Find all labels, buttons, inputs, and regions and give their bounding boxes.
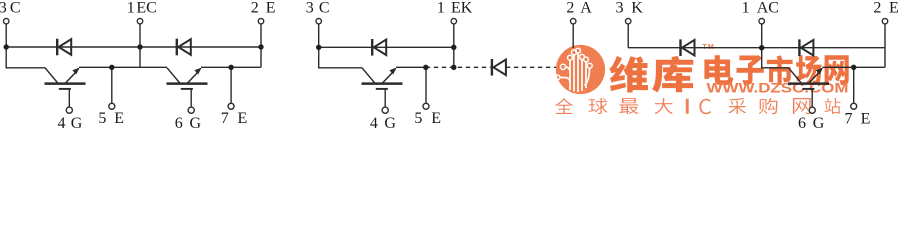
terminal circle 4G mid (gate pin): [382, 107, 388, 113]
wire 3K lead: [627, 24, 629, 48]
wire T2 emitter run: [201, 66, 261, 68]
transistor Q3 (IGBT, BJT-style symbol): [362, 68, 403, 108]
junction 3C-bus: [3, 44, 8, 49]
terminal circle 4G left (gate pin): [66, 107, 72, 113]
junction 1AC-bus: [759, 45, 764, 50]
wire 1AC lead and collector run: [762, 24, 789, 68]
svg-text:E: E: [266, 0, 276, 17]
diode D3 (freewheel of Q3) (cathode bar left, anode right): [372, 39, 386, 56]
wire 1EK lead: [453, 24, 455, 67]
wire left top bus C-to-E: [6, 46, 261, 48]
wire 2A lead over logo: [572, 24, 574, 48]
wire 5E mid drop: [425, 67, 427, 103]
svg-text:3: 3: [306, 0, 314, 17]
transistor Q4 (IGBT, BJT-style symbol): [788, 68, 829, 108]
terminal circle 2 A: [570, 18, 576, 24]
terminal circle 3 C mid: [316, 18, 322, 24]
watermark text wm-char 最: [619, 98, 638, 114]
svg-text:C: C: [10, 0, 21, 17]
svg-text:AC: AC: [757, 0, 779, 17]
wire 7E right drop: [853, 67, 855, 103]
svg-text:1: 1: [127, 0, 135, 17]
watermark text wm-char 网2: [793, 98, 811, 114]
wire 2E right lead: [884, 24, 886, 67]
svg-text:1: 1: [437, 0, 445, 17]
svg-text:7: 7: [845, 110, 853, 127]
label 6 G left: [175, 115, 202, 132]
svg-text:WWW.DZSC.COM: WWW.DZSC.COM: [707, 80, 849, 96]
terminal circle 1 EC: [137, 18, 143, 24]
label 1 AC: [742, 0, 779, 17]
watermark text wm-char 市: [767, 55, 793, 85]
terminal circle 2 E right: [882, 18, 888, 24]
junction 5E-wire mid: [423, 65, 428, 70]
label 2 E left: [251, 0, 276, 17]
svg-text:EK: EK: [451, 0, 473, 17]
watermark text wm-char 网: [825, 55, 849, 85]
terminal circle 5E left pin: [109, 103, 115, 109]
wire T1 emitter to T2 collector: [79, 66, 167, 68]
label 3 C mid: [306, 0, 330, 17]
terminal circle 3 C left: [3, 18, 9, 24]
svg-text:6: 6: [175, 115, 183, 131]
watermark text wm-char 维: [610, 56, 649, 93]
svg-text:2: 2: [873, 0, 881, 17]
watermark text wm-char 采: [729, 98, 747, 114]
svg-text:7: 7: [221, 110, 229, 127]
svg-text:G: G: [813, 115, 825, 131]
transistor Q2 (IGBT, BJT-style symbol): [167, 68, 208, 108]
svg-text:E: E: [861, 110, 871, 127]
junction 3C-bus mid: [316, 45, 321, 50]
wire 1EC lead: [139, 24, 141, 67]
label 7 E left: [221, 110, 248, 127]
terminal circle 7E right pin: [851, 103, 857, 109]
label 4 G mid: [370, 115, 397, 132]
svg-text:1: 1: [742, 0, 750, 17]
watermark text wm-char C: [699, 99, 711, 114]
svg-text:E: E: [889, 0, 899, 17]
junction 7E-wire right: [851, 65, 856, 70]
wire dashed link diode to 2A: [506, 66, 556, 68]
svg-text:K: K: [631, 0, 643, 17]
wire 7E left drop: [230, 67, 232, 103]
wire 5E left drop: [111, 67, 113, 103]
watermark text wm-char 站: [825, 98, 841, 114]
terminal circle 1 AC: [759, 18, 765, 24]
junction 2E-bus: [258, 44, 263, 49]
svg-text:G: G: [384, 115, 396, 131]
junction 5E-wire: [109, 65, 114, 70]
junction 1EK-wire: [451, 65, 456, 70]
svg-text:2: 2: [566, 0, 574, 17]
label 5 E left: [98, 110, 124, 127]
label 1 EC: [127, 0, 157, 17]
terminal circle 6G left (gate pin): [188, 107, 194, 113]
svg-text:A: A: [580, 0, 592, 17]
junction 1EK-bus: [451, 45, 456, 50]
label 2 E right: [873, 0, 898, 17]
diode D1 (freewheel of T1) (cathode bar left, anode right): [57, 39, 71, 56]
svg-text:E: E: [114, 110, 124, 127]
wire mid top bus: [319, 46, 454, 48]
label 6 G right: [798, 115, 825, 132]
wire 3C mid lead and collector run: [319, 24, 363, 68]
transistor Q1 (IGBT, BJT-style symbol): [45, 68, 86, 108]
junction 1EC-bus: [137, 44, 142, 49]
svg-text:EC: EC: [136, 0, 156, 17]
terminal circle 1 EK: [451, 18, 457, 24]
terminal circle 2 E left: [258, 18, 264, 24]
diode D4 (series blocking) (cathode bar left, anode right): [492, 59, 506, 76]
label 4 G left: [58, 115, 83, 132]
svg-text:3: 3: [0, 0, 7, 17]
terminal circle 7E left pin: [228, 103, 234, 109]
diode D5 (series, K to AC) (cathode bar left, anode right): [681, 39, 695, 56]
watermark text wm-char 电: [704, 55, 733, 85]
wire dashed link to series diode: [426, 66, 491, 68]
svg-text:G: G: [190, 115, 202, 131]
terminal circle 6G right (gate pin): [809, 107, 815, 113]
svg-text:2: 2: [251, 0, 259, 17]
terminal circle 3 K: [625, 18, 631, 24]
svg-text:5: 5: [98, 110, 106, 127]
label 7 E right: [845, 110, 871, 127]
svg-text:4: 4: [370, 115, 378, 131]
svg-text:E: E: [431, 110, 441, 127]
wire 2E lead: [260, 24, 262, 67]
diode D6 (freewheel of Q4) (cathode bar left, anode right): [799, 39, 813, 56]
label 2 A: [566, 0, 592, 17]
wire 3C lead and collector run T1: [6, 24, 45, 68]
svg-text:C: C: [319, 0, 330, 17]
watermark text wm-char I: [686, 99, 689, 114]
label 3 K: [616, 0, 644, 17]
terminal circle 5E mid pin: [423, 103, 429, 109]
watermark text wm-char 购: [759, 98, 778, 114]
wire right top bus: [628, 47, 885, 49]
watermark text wm-char 球: [589, 98, 608, 114]
watermark logo circuit traces: [560, 53, 590, 92]
watermark text wm-char 大: [655, 98, 673, 114]
label 1 EK: [437, 0, 473, 17]
watermark text wm-char 子: [737, 55, 764, 85]
svg-text:4: 4: [58, 115, 66, 131]
watermark text wm-char 全: [555, 98, 573, 114]
svg-text:5: 5: [414, 110, 422, 127]
diode D2 (freewheel of T2) (cathode bar left, anode right): [177, 39, 191, 56]
wire Q4 emitter run: [823, 66, 886, 68]
svg-text:E: E: [238, 110, 248, 127]
label 5 E mid: [414, 110, 441, 127]
svg-text:3: 3: [616, 0, 624, 17]
label 3 C left: [0, 0, 21, 17]
svg-text:6: 6: [798, 115, 806, 131]
junction 7E-wire: [228, 65, 233, 70]
watermark text wm-char 场: [796, 55, 822, 85]
wire Q3 emitter solid: [396, 66, 426, 68]
watermark logo circle (dzsc): [556, 45, 605, 94]
svg-text:G: G: [71, 115, 83, 131]
watermark text wm-char 库: [652, 56, 693, 93]
